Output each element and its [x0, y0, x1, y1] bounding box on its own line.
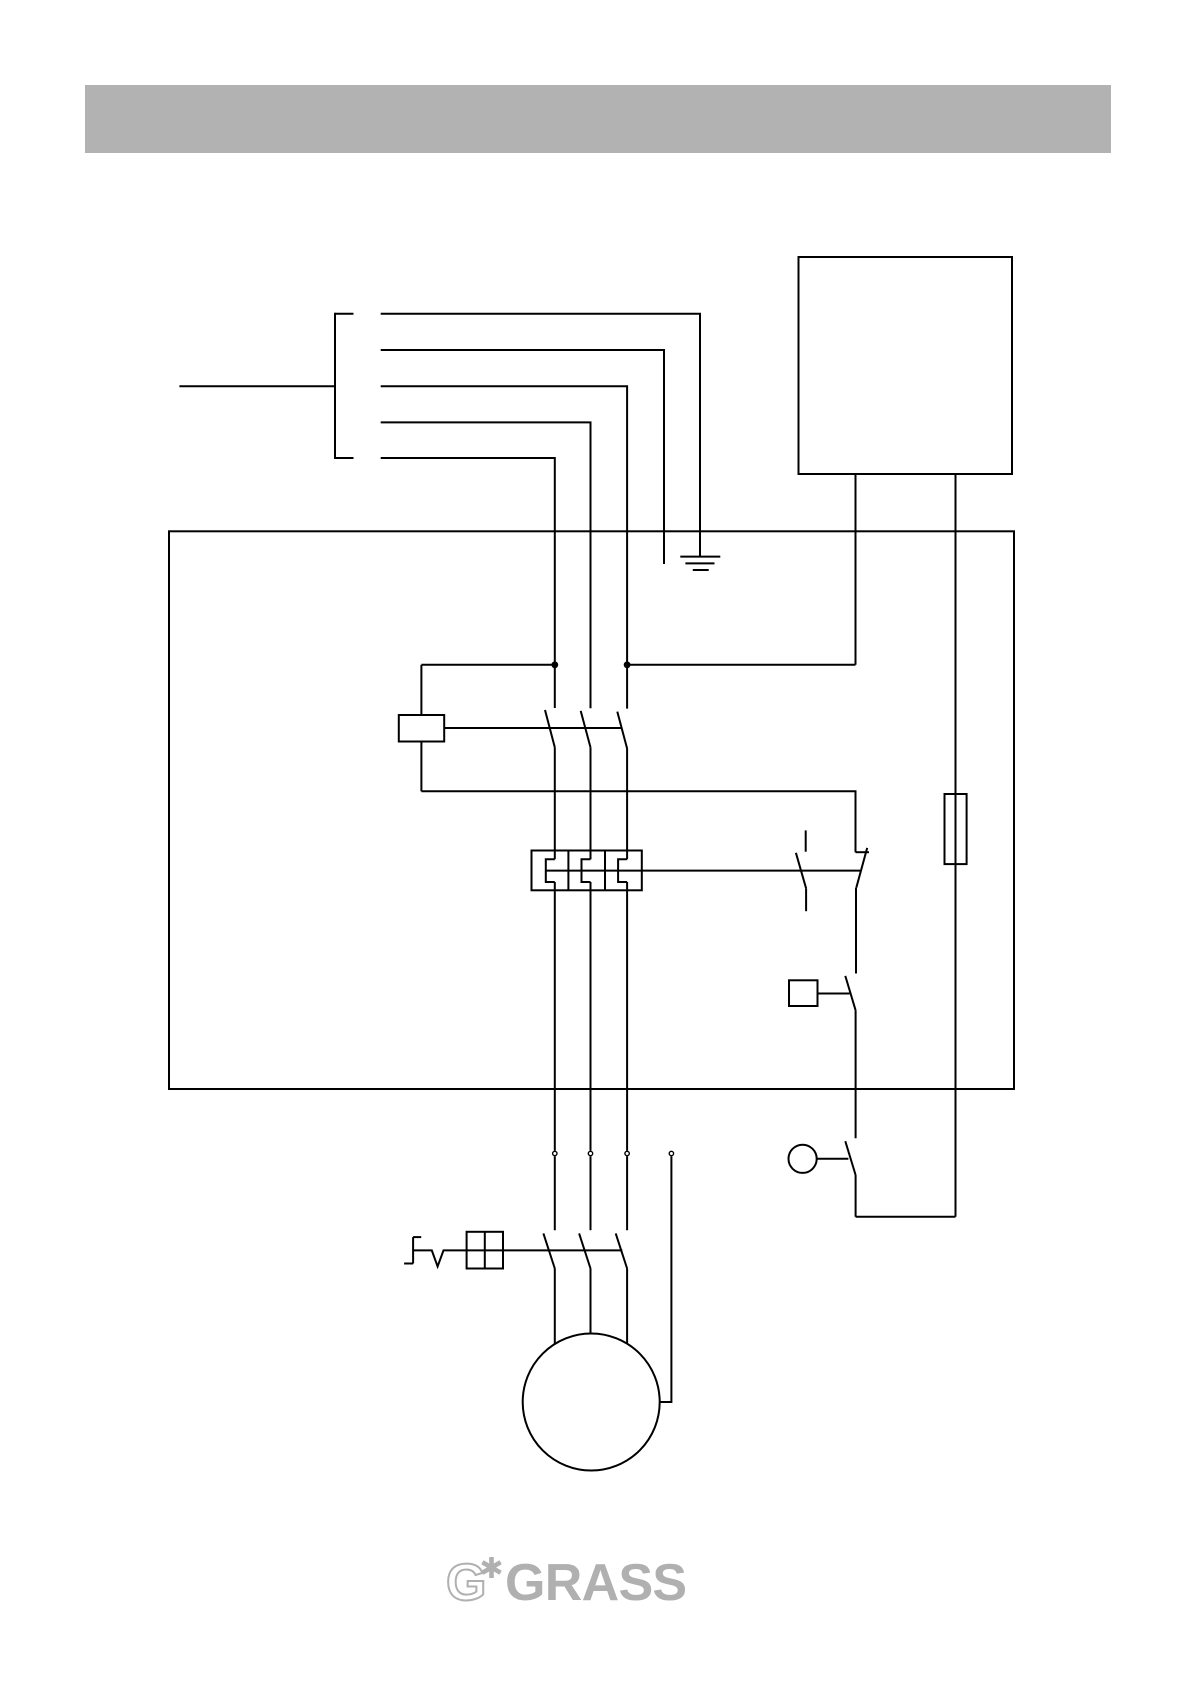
heater element 3 [618, 859, 627, 882]
contact K1.3 [617, 712, 627, 749]
enclosure [169, 531, 1014, 1089]
wire terminal 2 to switch [590, 1156, 592, 1230]
wire phase 3 lower [626, 882, 628, 1151]
header bar [85, 85, 1111, 153]
wire terminal 1 to switch [554, 1156, 556, 1230]
heater element 2 [582, 859, 591, 882]
wire NC to stop [855, 888, 857, 974]
switch Q1 handle [413, 1236, 421, 1238]
switch Q1 interlock box [467, 1232, 503, 1269]
wire start lower [855, 1175, 857, 1217]
wire below K1.2 [590, 747, 592, 859]
NC contact F1.1 blade [856, 848, 867, 888]
wire control bus left [421, 664, 554, 666]
svg-text:G: G [446, 1554, 486, 1612]
fuse F2 [945, 794, 967, 864]
wire switch to motor 2 [590, 1269, 592, 1334]
wire control bottom [856, 1216, 956, 1218]
junction node bus-L3 [624, 661, 631, 668]
wire box left lead [855, 474, 857, 665]
wire box right lead / fuse wire [955, 474, 957, 1217]
start button blade [845, 1141, 855, 1175]
contact K1.1 [545, 710, 555, 747]
wire 1 PE to ground [381, 314, 700, 557]
heater element 1 [546, 859, 555, 882]
wire below K1.3 [626, 749, 628, 860]
junction node bus-L1 [551, 661, 558, 668]
switch Q1 blade 1 [543, 1233, 554, 1268]
contact K1.2 [581, 711, 591, 748]
wire 5 phase L1 [381, 458, 555, 708]
wire 4 phase L2 [381, 422, 591, 708]
wire terminal 3 to switch [626, 1156, 628, 1230]
wire supply lead-in [179, 385, 335, 387]
stop button rod [818, 993, 850, 995]
wire phase 2 lower [590, 882, 592, 1151]
wire below K1.1 [554, 747, 556, 859]
control box U1 [799, 257, 1013, 474]
wire coil to NC contact [421, 791, 855, 852]
mechanical link [444, 727, 622, 729]
wire terminal 4 PE [660, 1156, 672, 1402]
coil K1 top lead [420, 665, 422, 715]
logo asterisk [482, 1557, 500, 1578]
wire switch to motor 3 [626, 1269, 628, 1344]
wire switch to motor 1 [554, 1269, 556, 1344]
start button rod [817, 1158, 849, 1160]
terminal T1 [553, 1151, 557, 1155]
stop button S0 actuator [789, 980, 818, 1006]
terminal T3 [625, 1151, 629, 1155]
trip bar [546, 870, 860, 872]
aux contact F1.2 [805, 830, 807, 851]
coil K1 bottom lead [420, 742, 422, 792]
coil K1 [399, 715, 444, 742]
ground [680, 556, 720, 558]
terminal T2 [588, 1151, 592, 1155]
wire phase 1 lower [554, 882, 556, 1151]
wire 2 stub [381, 350, 664, 564]
connector X1 bracket [334, 313, 336, 459]
stop button blade [845, 976, 855, 1010]
switch Q1 blade 3 [616, 1233, 627, 1268]
wire stop to start [855, 1010, 857, 1138]
terminal T4 [669, 1151, 673, 1155]
motor M1 [523, 1334, 660, 1471]
start button S1 actuator [789, 1145, 817, 1173]
wire control bus right [627, 664, 855, 666]
switch Q1 blade 2 [579, 1233, 590, 1268]
wire 3 phase L3 [381, 386, 627, 708]
svg-text:GRASS: GRASS [505, 1554, 686, 1612]
NC contact F1.1 nose [856, 851, 870, 853]
overload relay F1 body [532, 851, 642, 891]
switch Q1 linkage rod [413, 1250, 622, 1266]
